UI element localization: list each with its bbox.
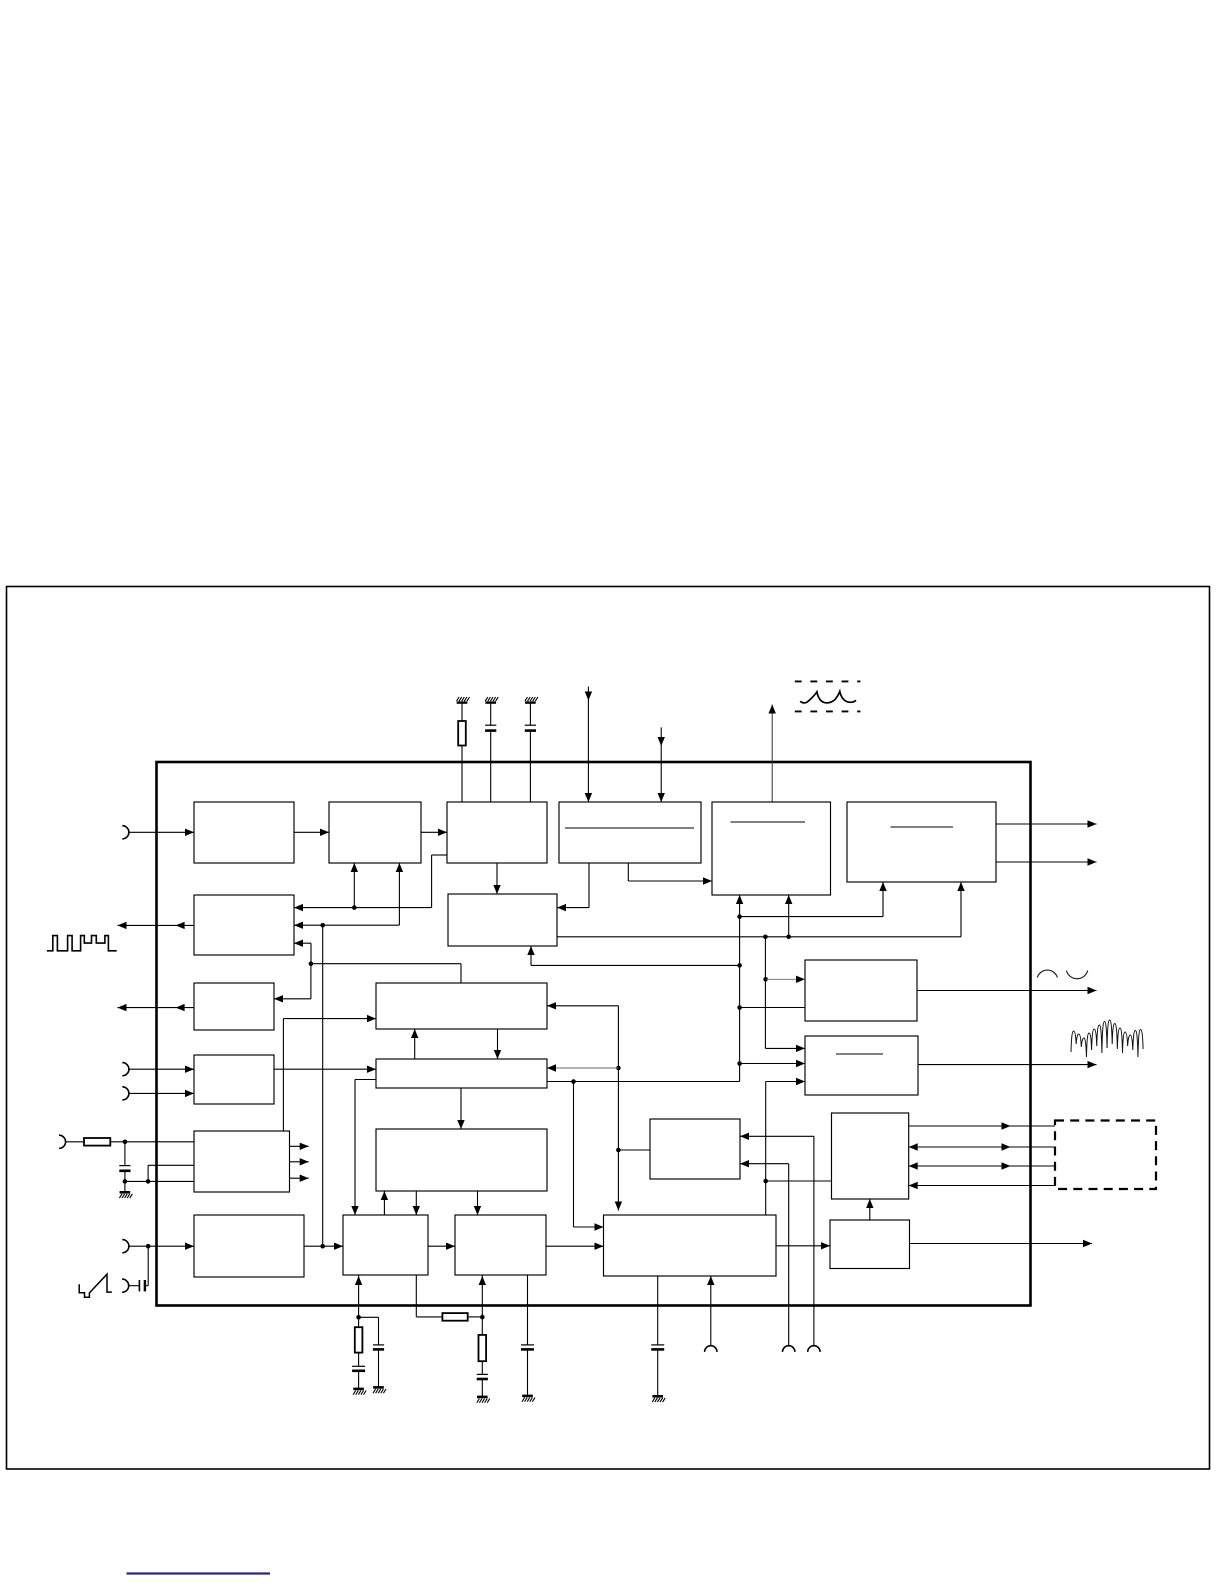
capacitor C2 (top external) [525,725,536,730]
wire pin to R5S lower-right input [740,1160,789,1346]
wire S2 output right [910,1240,1093,1247]
ground (below C7) [477,1397,490,1403]
capacitor C6 [373,1345,384,1350]
label line in R4R [836,1053,883,1055]
capacitor C8 [521,1345,534,1350]
wire [66,1141,84,1143]
wire x765 lower branch to R4R bottom input [766,1078,805,1215]
wire [527,1349,529,1396]
wire into BL1 input1 [110,1141,194,1143]
wire W2 into R2M bottom [527,946,739,965]
wire (output arrow up to transformer) [769,705,776,803]
wire x618 net into R3M right [547,1002,622,1210]
wire R3M down to R4M [494,1029,501,1059]
block BB [455,1215,546,1275]
connector J4 (left input via resistor) [59,1135,66,1148]
wire junction net into R3L [274,964,311,1003]
wire 925-line into R2L and B2 [294,863,403,929]
node (junction 739/916) [737,914,742,919]
wire from BL1 top into R3M left [283,1015,376,1131]
resistor R5 (BB bottom) [479,1335,487,1361]
block R3R [805,960,917,1021]
block R5FR [832,1113,909,1199]
block R3M (horizontal deflection) [376,983,547,1029]
wire [129,1285,140,1287]
node (junction 311/964) [309,961,314,966]
resistor R4 (horizontal bottom) [442,1313,467,1321]
node (junction 739/1007) [737,1005,742,1010]
wire input to R4L a [129,1066,194,1073]
resistor R2 (horizontal input) [84,1138,110,1146]
block R4L [194,1055,274,1104]
node (junction 125/1142) [123,1140,128,1145]
wire R2L output to left (sync out) [118,922,195,929]
block BA [343,1215,428,1275]
block R5S [650,1119,740,1179]
label line in B4 [565,827,694,829]
wire [490,731,492,802]
wire BA bottom up-arrow from node [355,1275,362,1317]
symbol: sawtooth waveform [79,1274,112,1297]
wire into BL1 input3 [148,1180,194,1182]
wire faint into R4M right [547,1064,618,1071]
wire [481,1379,483,1397]
wire BA up to R5M [381,1191,388,1215]
wire cap branch down [124,1142,126,1166]
wire (input to B1) [129,829,194,836]
wire input to BL2 [129,1243,194,1250]
wire junction net to R3M top [311,964,461,983]
wire R5M down to BB [474,1191,481,1215]
wire BC bottom cap branch [657,1276,659,1345]
node (junction 739/965) [737,963,742,968]
wire [529,731,531,802]
wire [481,1361,483,1374]
wire BB bottom up-arrow [479,1275,486,1317]
node (junction 766/979) [763,977,768,982]
block B4 (regulator) [559,802,701,863]
wire R4R output right [918,1061,1097,1068]
wire B4 to B5 [628,863,712,885]
wire R2M output line to B6 bottom [557,882,965,937]
wire [490,703,492,726]
wire down to coupling cap [145,1246,148,1286]
wire R4M up to R3M [411,1029,418,1059]
node (junction 739/1063) [737,1061,742,1066]
symbol: sine arcs [1037,970,1087,979]
wire into R2L third input [294,940,311,964]
node (junction 573/1082) [571,1079,576,1084]
wire [461,746,463,803]
wire BB bottom cap branch [527,1275,529,1345]
wire to R5S left [618,1149,650,1151]
wire R4M down to R5M top [457,1088,464,1129]
capacitor C1 (top external) [485,725,496,730]
block R4M (thin) [376,1059,547,1088]
wire S2 up to R5FR [866,1199,873,1220]
wire B3-left feed to R2L and B2 [294,855,447,911]
node (junction 148/1246) [146,1244,151,1249]
wire [461,703,463,721]
connector J1 (left input) [122,826,129,839]
wire R5FR to dashed box line1 [909,1122,1055,1129]
node (junction on 907 line) [352,905,357,910]
wire dashed box to R5FR line4 [909,1182,1055,1189]
wire up and into BL1 input2 [148,1165,194,1181]
wire R3L output to left [118,1004,195,1011]
node (junction 765/1181) [763,1179,768,1184]
node (junction 765/937) [763,935,768,940]
ground (top, resistor branch) [457,697,470,703]
wire B1 to B2 [294,829,329,836]
ground (below C9) [652,1396,665,1402]
connector J8 (bottom pin) [705,1346,717,1352]
ground (top, capacitor C2 branch) [525,697,538,703]
wire R5FR dashed box line2 (bidir) [909,1143,1055,1150]
wire [358,1371,360,1389]
block R2L (sync processor) [194,895,294,955]
block R4R [805,1036,918,1095]
wire (second input arrow into block B4) [658,727,665,802]
wire faint into R3R left [766,976,805,983]
wire BA to BB [428,1243,455,1250]
wire long vertical x322 feedback [322,925,324,1246]
wire [358,1317,360,1327]
wire (supply input arrow into block B4) [585,687,592,802]
wire [481,1317,483,1335]
wire [378,1349,380,1387]
transformer T1 (dashed box bottom line) [795,710,861,712]
block R2M [448,894,557,946]
block B6 (output stage) [847,802,996,882]
resistor R3 (BA bottom) [355,1327,363,1352]
ground (below C6) [373,1387,386,1393]
wire BL1 output arrows [290,1143,309,1182]
symbol: spectrum waveform [1071,1020,1143,1057]
wire BL2 output to BA [304,1243,343,1250]
block BL2 [194,1215,304,1277]
ground (below C3) [119,1192,132,1198]
wire B4 down to R2M [557,863,589,911]
wire B2 to B3 [421,829,447,836]
node (junction 618/1068) [616,1066,621,1071]
wire R5FR dashed box line3 (bidir) [909,1162,1055,1169]
wire x765 branch to R4R top input [765,937,805,1052]
capacitor C7 [477,1374,488,1379]
page border frame [7,587,1210,1470]
wire [358,1353,360,1367]
wire node right to C6 [359,1317,379,1345]
block BC [604,1215,777,1276]
block R3L [194,983,274,1030]
wire R4M right bus [547,1081,740,1083]
capacitor C3 (input filter) [119,1166,130,1171]
symbol: square-wave waveform [47,936,117,951]
ground (below C8) [522,1396,535,1402]
label line in B6 [891,826,954,828]
block B1 (input stage) [194,802,294,863]
wire R4M left-down to BA top [351,1080,376,1216]
node (junction 322/925) [320,923,325,928]
wire BC to S2 [776,1242,830,1249]
dashed box (external module) [1055,1121,1156,1190]
wire input to R4L b [129,1090,194,1097]
wire branch to B6 bottom [740,882,887,917]
node (junction 788/937) [786,935,791,940]
block R5M [376,1129,547,1191]
wire to R5FR left input [766,1180,832,1182]
chip boundary (IC outline) [157,762,1031,1306]
block B3 [447,802,547,863]
wire R3R output right [917,987,1097,994]
wire B6 output 2 (chip output right) [996,858,1097,865]
wire [657,1349,659,1396]
wire to R4R middle input [740,1060,805,1067]
connector J5 (ramp input) [122,1240,129,1253]
node (junction 322/1246) [320,1244,325,1249]
ground (below C5) [353,1389,366,1395]
connector J6 (bottom pin) [783,1346,795,1352]
wire up into B2 bottom [351,863,358,908]
wire node to 148 node [125,1180,148,1182]
node (junction 358/1317) [356,1315,361,1320]
connector J5b (sawtooth input) [122,1279,129,1292]
connector J7 (bottom pin) [808,1346,820,1352]
capacitor C5 [352,1366,365,1371]
wire B3 down to R2M top [493,863,500,894]
wire up into B5 bottom from node [785,895,792,937]
capacitor C9 [651,1345,664,1350]
wire R5M down to BA [413,1191,420,1215]
wire BB to BC [546,1243,604,1250]
transformer T1 (dashed box top line) [795,680,861,682]
wire vertical x739 bus up to B5 [736,895,743,1082]
footer link underline [127,1572,271,1574]
node (junction 148/1181) [146,1179,151,1184]
block BL1 [194,1131,290,1192]
wire down to BC left input [574,1082,604,1231]
connector J2 (left input) [122,1063,129,1076]
transformer T1 coil winding [800,691,856,703]
wire B6 output 1 (chip output right) [996,820,1097,827]
wire pin to R5S top-right input [740,1133,814,1346]
node (junction 125/1181) [123,1179,128,1184]
wire R4L to R4M [274,1066,376,1073]
block S2 [830,1220,910,1269]
wire [468,1316,483,1318]
wire into R3R left lower [740,1007,805,1009]
resistor R1 (top external) [458,721,466,746]
ground (top, capacitor C1 branch) [485,697,498,703]
connector J3 (left input) [122,1087,129,1100]
wire pin up into BC bottom [707,1276,714,1346]
label line in B5 [731,821,806,823]
block B2 [329,802,421,863]
node (junction 618/1150) [616,1148,621,1153]
wire BA bottom elbow to R4 resistor [416,1275,442,1317]
block B5 (driver) [712,802,831,895]
node (junction 482/1317) [480,1315,485,1320]
wire [529,703,531,726]
wire [124,1171,126,1193]
capacitor C4 (coupling, horizontal) [139,1280,145,1291]
